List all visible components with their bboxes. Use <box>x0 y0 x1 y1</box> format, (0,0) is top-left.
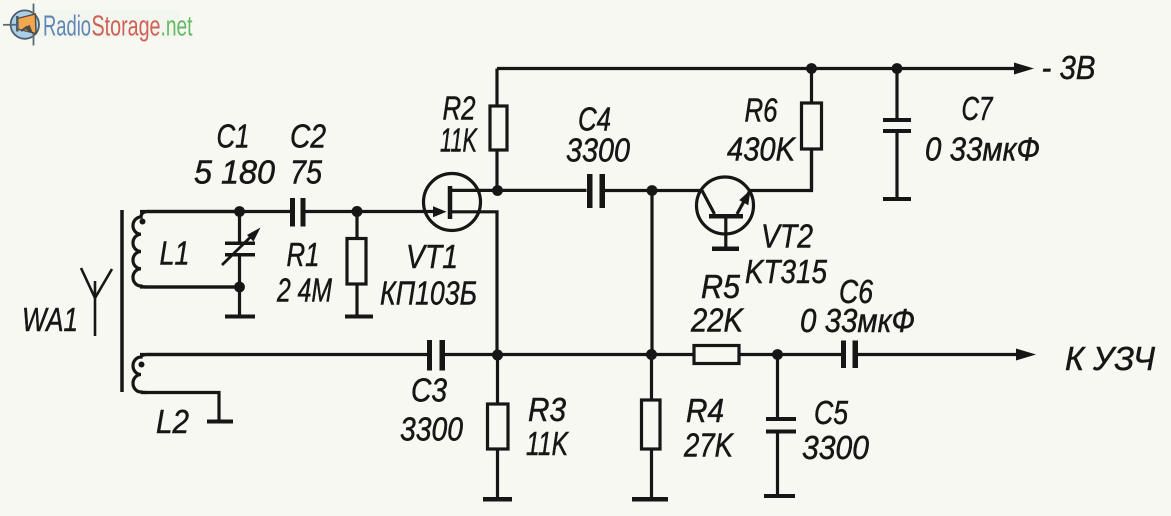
wire R6 bottom lead <box>810 149 813 191</box>
wire C6 to output <box>858 353 1018 356</box>
svg-text:C7: C7 <box>962 90 994 127</box>
svg-text:R6: R6 <box>745 92 779 129</box>
wire R1 top lead <box>355 212 358 239</box>
wire C1 to ground <box>238 287 241 315</box>
svg-text:0 33мкФ: 0 33мкФ <box>800 302 915 339</box>
node dot C7 rail <box>892 63 903 74</box>
svg-text:0 33мкФ: 0 33мкФ <box>925 131 1040 168</box>
resistor R1 <box>347 239 366 285</box>
svg-text:22K: 22K <box>690 302 745 339</box>
antenna WA1 <box>81 268 112 336</box>
svg-text:L2: L2 <box>156 403 189 440</box>
svg-text:5 180: 5 180 <box>194 154 276 191</box>
wire drain to C4 <box>450 189 587 192</box>
svg-text:Radio: Radio <box>43 11 91 43</box>
wire R3 to ground <box>496 449 499 497</box>
capacitor C2 plates <box>290 198 306 227</box>
resistor R6 <box>802 103 822 149</box>
svg-text:3300: 3300 <box>566 132 631 169</box>
wire C4 to VT2 <box>605 189 702 192</box>
svg-text:L1: L1 <box>160 235 190 272</box>
wire C7 bottom lead <box>895 133 898 197</box>
wire L2 bottom to ground <box>141 393 219 420</box>
capacitor C4 plates <box>587 174 605 208</box>
svg-text:2 4M: 2 4M <box>276 272 332 309</box>
transistor VT2 <box>697 177 754 251</box>
capacitor C5 plates <box>766 417 796 434</box>
svg-text:R3: R3 <box>528 391 567 428</box>
node dot C5 rail <box>772 349 783 360</box>
svg-text:75: 75 <box>290 154 323 191</box>
arrow K UZCH <box>1016 349 1036 361</box>
L1 polarity dot <box>140 219 146 225</box>
wire R3 top lead <box>496 355 499 404</box>
wire VT2 to R6 bottom <box>750 149 812 191</box>
node dot C4/VT2 <box>647 185 658 196</box>
wire C1 top lead <box>238 212 241 242</box>
transformer core bar <box>120 210 124 392</box>
svg-text:3300: 3300 <box>802 429 870 466</box>
ground C1 <box>225 315 255 319</box>
resistor R2 <box>490 106 507 150</box>
wire gate of VT1 <box>357 210 437 213</box>
capacitor C1 variable <box>222 228 261 266</box>
ground C7 <box>883 197 911 201</box>
ground R3 <box>483 497 512 502</box>
ground L2 <box>207 420 233 424</box>
top power rail wire <box>497 67 1015 70</box>
ground R4 <box>632 497 668 502</box>
inductor L2 <box>133 355 240 393</box>
resistor R3 <box>488 404 509 449</box>
svg-text:R1: R1 <box>287 236 320 273</box>
svg-text:R5: R5 <box>701 268 741 305</box>
svg-text:КП103Б: КП103Б <box>380 275 477 312</box>
wire source of VT1 <box>450 212 497 355</box>
svg-text:К УЗЧ: К УЗЧ <box>1065 340 1156 377</box>
resistor R5 <box>694 346 739 364</box>
svg-text:KT315: KT315 <box>745 253 828 290</box>
node dot R6 rail <box>806 63 817 74</box>
wire L1 top to C2 <box>140 210 290 213</box>
arrow -3V <box>1014 63 1034 75</box>
wire C5 to ground <box>776 434 779 495</box>
node dot drain/R2 <box>492 185 503 196</box>
L2 polarity dot <box>139 362 145 368</box>
wire R4 to ground <box>650 449 653 497</box>
wire R4 top lead <box>650 355 653 401</box>
wire R2 bottom to node <box>495 150 498 191</box>
node dot R4 rail <box>646 349 657 360</box>
svg-text:.net: .net <box>161 11 193 43</box>
wire second rail left <box>140 353 427 356</box>
svg-text:VT1: VT1 <box>406 238 458 275</box>
wire R5 to C6 <box>739 353 841 356</box>
wire C7 top <box>895 69 898 119</box>
svg-text:3300: 3300 <box>400 411 464 448</box>
node dot C1 top <box>234 206 245 217</box>
wire C2 to gate node <box>306 210 358 213</box>
logo icon transistor <box>3 4 39 46</box>
wire L1 bottom <box>140 285 240 288</box>
wire C3 to R3 node <box>445 353 694 356</box>
capacitor C7 plates <box>883 118 911 133</box>
ground R1 <box>345 315 373 319</box>
resistor R4 <box>642 400 661 449</box>
wire C5 top lead <box>776 355 779 418</box>
transistor VT1 <box>424 174 481 231</box>
svg-text:11K: 11K <box>526 425 569 462</box>
node dot R3 rail <box>492 350 503 361</box>
logo band tint <box>30 10 180 38</box>
svg-text:- 3В: - 3В <box>1042 49 1096 86</box>
node dot L1 bottom <box>234 282 245 293</box>
svg-text:C5: C5 <box>814 394 849 431</box>
svg-text:R4: R4 <box>686 392 724 429</box>
svg-text:Storage: Storage <box>92 11 161 43</box>
wire R6 top <box>810 69 813 104</box>
svg-text:VT2: VT2 <box>761 218 813 255</box>
wire node to R4 branch <box>650 191 653 355</box>
svg-text:C3: C3 <box>411 372 448 409</box>
wire R1 to ground <box>355 284 358 315</box>
ground C5 <box>764 494 795 498</box>
svg-text:C1: C1 <box>217 118 250 155</box>
svg-text:WA1: WA1 <box>22 301 78 338</box>
svg-text:27K: 27K <box>683 427 734 464</box>
svg-text:C2: C2 <box>290 118 326 155</box>
node dot gate/R1 <box>352 206 363 217</box>
wire C1 bottom lead <box>238 257 241 288</box>
capacitor C3 plates <box>427 340 445 371</box>
svg-text:11K: 11K <box>440 122 478 159</box>
wire R2 top <box>495 69 498 107</box>
svg-text:430K: 430K <box>727 131 797 168</box>
capacitor C6 plates <box>841 341 858 369</box>
inductor L1 <box>133 212 240 288</box>
